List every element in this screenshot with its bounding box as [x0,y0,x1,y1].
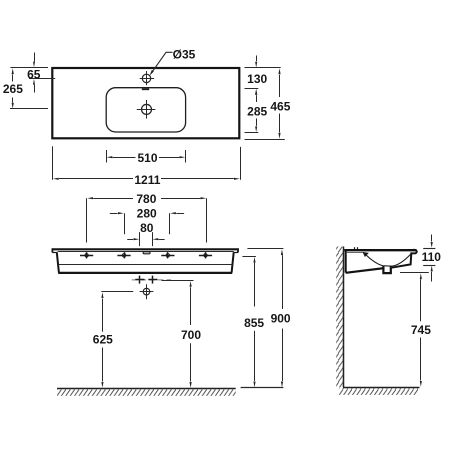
svg-text:510: 510 [137,151,157,165]
svg-text:80: 80 [140,221,154,235]
svg-text:855: 855 [244,316,264,330]
faucet hole symbol [140,71,154,85]
svg-text:265: 265 [3,82,23,96]
floor hatch front view [57,389,236,396]
svg-text:465: 465 [270,99,290,113]
floor line side view [343,387,420,389]
dimension 265 [3,68,48,108]
drain symbol top view [137,100,156,119]
faucet hole cross front at x=167.9 [161,252,174,258]
dimension 285 [247,89,267,132]
svg-text:780: 780 [136,192,156,206]
dimension 625 [93,292,133,388]
svg-text:900: 900 [271,311,291,325]
dimension 900 [247,249,291,388]
dimension 110 [422,235,442,282]
faucet hole cross front at x=205.5 [199,252,212,258]
side view wall hatch [336,247,343,388]
dimension 65 [10,53,55,93]
floor line front view [57,388,236,390]
floor hatch side view [339,388,418,395]
dimension 465 [270,68,290,138]
top view countertop outline [52,68,239,138]
dimension 80 [127,221,164,246]
svg-text:285: 285 [247,105,267,119]
fixing hole centerline dashes [132,279,171,281]
svg-text:130: 130 [247,72,267,86]
dimension 1211 [53,146,241,187]
top view bowl [106,88,185,132]
dimension 280 [110,207,184,235]
overflow slot mark top view [142,88,149,90]
dimension 510 [107,150,186,165]
svg-text:700: 700 [181,328,201,342]
dimension 745 [400,273,431,387]
label O35 with leader [150,47,196,75]
front view basin outline [52,248,239,273]
side view wall line [343,247,345,388]
faucet hole cross front at x=86.6 [80,252,93,258]
svg-text:65: 65 [27,67,41,81]
svg-text:110: 110 [422,250,442,264]
dimension 700 [162,281,202,388]
ground extension line under 855/900 [241,387,284,389]
svg-text:280: 280 [137,207,157,221]
overflow slot front view [143,252,150,254]
svg-text:745: 745 [411,323,431,337]
side view basin profile [344,247,417,273]
drain symbol front view [140,284,154,299]
svg-text:Ø35: Ø35 [173,47,196,61]
svg-text:625: 625 [93,333,113,347]
fixing hole marks [135,276,157,284]
dimension 855 [242,257,264,388]
faucet hole cross front at x=124.0 [117,252,130,258]
right side extension lines [245,67,281,69]
dimension 780 [87,192,207,242]
svg-text:1211: 1211 [134,173,160,187]
dimension 130 [247,56,267,102]
